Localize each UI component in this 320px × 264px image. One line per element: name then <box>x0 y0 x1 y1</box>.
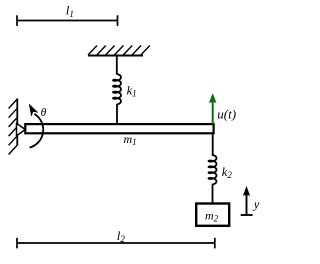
spring k2 bottom wire <box>212 185 214 204</box>
force arrow u(t) <box>209 94 216 125</box>
spring k2 top wire <box>212 134 214 155</box>
svg-text:y: y <box>252 198 260 212</box>
pivot triangle <box>17 123 26 135</box>
displacement arrow y <box>241 187 253 216</box>
wall <box>16 99 18 146</box>
dimension line l2 <box>17 238 215 249</box>
wall hatching <box>9 99 18 155</box>
svg-text:u(t): u(t) <box>217 107 236 122</box>
svg-text:θ: θ <box>41 107 47 119</box>
ceiling fixed support <box>88 55 143 57</box>
dimension line l1 <box>17 15 118 26</box>
spring k1 bottom wire <box>116 105 118 124</box>
arc arrowhead <box>29 104 37 116</box>
beam m1 <box>25 124 213 133</box>
mass m2 box <box>196 204 229 226</box>
spring k1 top wire <box>116 56 118 75</box>
spring k2 coil <box>209 155 217 185</box>
angle arc theta <box>30 114 44 148</box>
spring k1 coil <box>113 74 121 105</box>
ceiling hatching <box>88 46 150 56</box>
